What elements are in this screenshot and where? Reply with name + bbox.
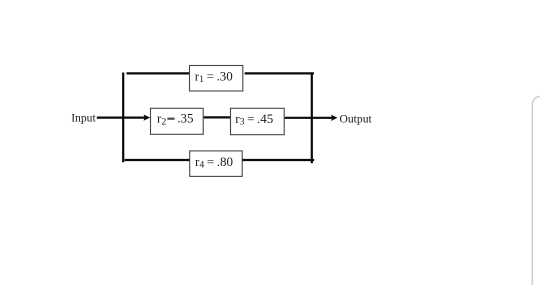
block r2 = .35 xyxy=(151,108,204,134)
block r4 = .80 xyxy=(190,151,243,177)
wire: input arrow to r2 xyxy=(97,116,145,118)
wire: left vertical bus xyxy=(122,73,124,163)
card edge (right side rounded corner) xyxy=(532,96,540,285)
wire: r3 to output arrow xyxy=(285,117,333,119)
arrowhead output xyxy=(331,115,338,121)
wire: r2 to r3 xyxy=(204,116,231,118)
wire: bottom branch left segment xyxy=(125,159,190,161)
wire: bottom branch right segment xyxy=(243,159,315,161)
wire: right vertical bus xyxy=(311,73,313,164)
svg-text:.35: .35 xyxy=(177,111,193,126)
wire: top branch left segment xyxy=(127,72,190,74)
svg-text:Input: Input xyxy=(71,112,96,125)
wire: top branch right segment xyxy=(245,72,314,74)
svg-text:Output: Output xyxy=(340,112,373,125)
block r3 = .45 xyxy=(231,108,285,134)
arrowhead input xyxy=(144,114,151,120)
block r1 = .30 xyxy=(190,66,243,92)
